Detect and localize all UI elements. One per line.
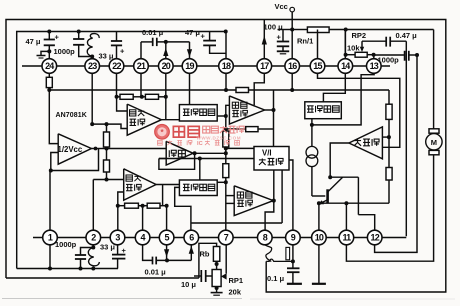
svg-text:47 μ: 47 μ [185, 28, 200, 37]
svg-text:12: 12 [370, 233, 379, 243]
svg-text:+: + [120, 47, 125, 56]
svg-text:16: 16 [288, 61, 297, 71]
svg-text:V/I: V/I [262, 148, 272, 157]
svg-text:24: 24 [45, 61, 54, 71]
svg-text:10 μ: 10 μ [181, 280, 196, 289]
svg-text:+: + [55, 33, 60, 42]
svg-text:14: 14 [341, 61, 350, 71]
svg-text:Rb: Rb [200, 250, 210, 259]
svg-text:0.01 μ: 0.01 μ [145, 268, 167, 277]
svg-text:+: + [277, 32, 282, 41]
svg-text:23: 23 [88, 61, 97, 71]
svg-text:+: + [122, 246, 127, 255]
svg-text:0.01 μ: 0.01 μ [142, 28, 164, 37]
svg-text:22: 22 [112, 61, 121, 71]
svg-text:20: 20 [162, 61, 171, 71]
svg-text:1000p: 1000p [54, 47, 76, 56]
svg-text:18: 18 [222, 61, 231, 71]
svg-text:1000p: 1000p [55, 240, 77, 249]
svg-text:M: M [431, 138, 437, 147]
svg-text:10k: 10k [347, 44, 360, 53]
svg-text:33 μ: 33 μ [99, 52, 114, 61]
svg-text:RP1: RP1 [229, 276, 244, 285]
svg-text:Rn/1: Rn/1 [297, 37, 313, 46]
svg-text:+: + [201, 32, 206, 41]
svg-text:17: 17 [260, 61, 269, 71]
svg-text:19: 19 [185, 61, 194, 71]
svg-text:15: 15 [313, 61, 322, 71]
svg-text:0.47 μ: 0.47 μ [396, 31, 418, 40]
svg-text:21: 21 [137, 61, 146, 71]
svg-text:13: 13 [370, 61, 379, 71]
svg-text:WWW.DZSC.COM: WWW.DZSC.COM [197, 136, 242, 141]
svg-text:AN7081K: AN7081K [56, 112, 87, 119]
svg-text:47 μ: 47 μ [26, 37, 41, 46]
svg-text:Vcc: Vcc [275, 2, 288, 11]
svg-text:11: 11 [342, 233, 351, 243]
svg-text:10: 10 [315, 233, 324, 243]
svg-text:0.1 μ: 0.1 μ [267, 274, 285, 283]
svg-text:IC: IC [197, 141, 203, 147]
svg-text:100 μ: 100 μ [264, 23, 284, 32]
svg-text:RP2: RP2 [352, 31, 367, 40]
svg-text:1/2Vcc: 1/2Vcc [58, 145, 83, 154]
svg-text:20k: 20k [229, 288, 242, 297]
